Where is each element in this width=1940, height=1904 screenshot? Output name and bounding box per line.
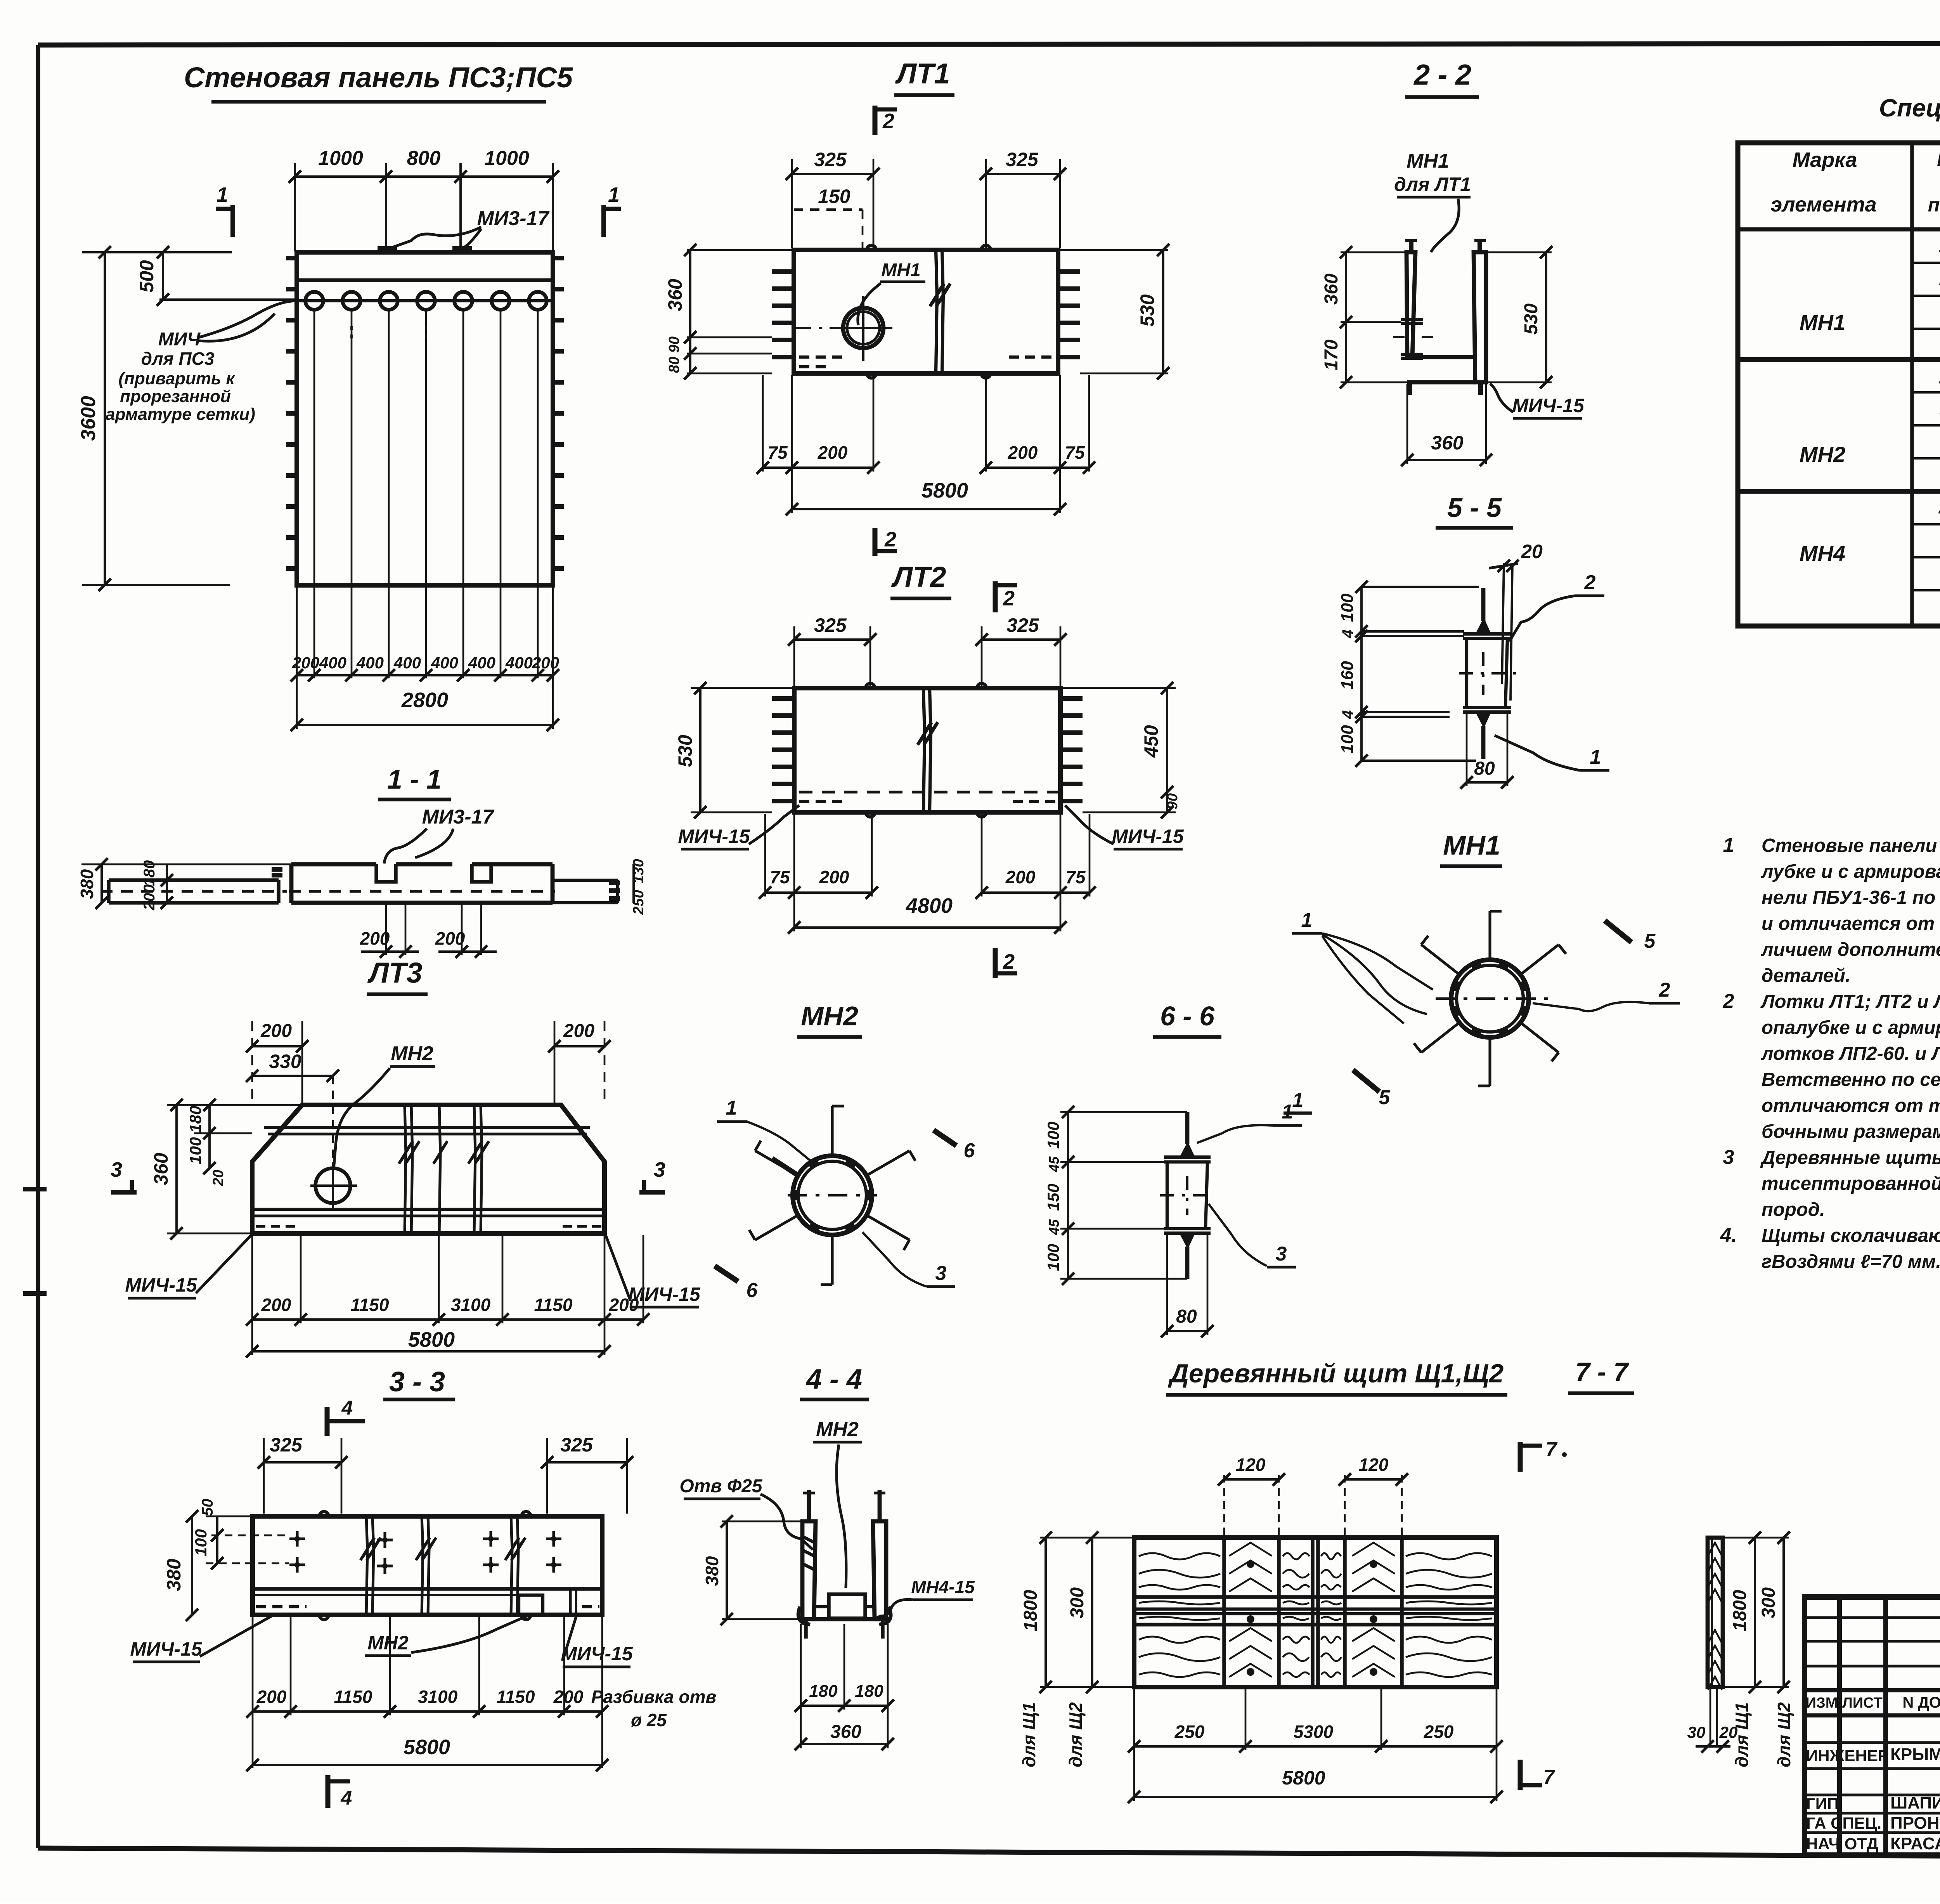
svg-text:45: 45 xyxy=(1046,1156,1062,1172)
svg-text:100: 100 xyxy=(1338,593,1357,622)
svg-text:6 - 6: 6 - 6 xyxy=(1160,1001,1215,1031)
svg-text:45: 45 xyxy=(1046,1219,1062,1235)
svg-text:20: 20 xyxy=(1521,541,1543,562)
svg-text:80: 80 xyxy=(1474,758,1495,779)
svg-text:ЛТ1: ЛТ1 xyxy=(895,57,950,90)
svg-text:30: 30 xyxy=(1687,1723,1706,1741)
svg-text:деталей.: деталей. xyxy=(1762,965,1851,986)
svg-text:МИ3-17: МИ3-17 xyxy=(422,806,495,828)
svg-text:1150: 1150 xyxy=(334,1687,372,1707)
svg-text:200: 200 xyxy=(261,1295,291,1315)
svg-text:100: 100 xyxy=(1338,725,1357,754)
svg-text:180: 180 xyxy=(855,1682,883,1701)
svg-text:5800: 5800 xyxy=(404,1736,450,1759)
svg-text:1000: 1000 xyxy=(318,147,363,170)
svg-text:МН1: МН1 xyxy=(1800,310,1845,335)
svg-text:ГИП: ГИП xyxy=(1806,1795,1839,1813)
svg-text:2: 2 xyxy=(1003,587,1015,610)
svg-text:330: 330 xyxy=(269,1051,301,1072)
svg-text:400: 400 xyxy=(468,654,495,672)
svg-text:Лотки ЛТ1; ЛТ2 и ЛТ3 изготовля: Лотки ЛТ1; ЛТ2 и ЛТ3 изготовляются В xyxy=(1760,991,1940,1012)
svg-text:4: 4 xyxy=(1339,629,1356,638)
svg-text:2 - 2: 2 - 2 xyxy=(1413,59,1471,91)
svg-text:500: 500 xyxy=(136,260,158,293)
svg-text:200: 200 xyxy=(532,654,559,672)
svg-text:МИЧ-15: МИЧ-15 xyxy=(1512,395,1584,416)
svg-text:400: 400 xyxy=(393,654,421,672)
svg-text:180: 180 xyxy=(186,1106,204,1133)
svg-text:1: 1 xyxy=(608,183,620,206)
svg-text:200: 200 xyxy=(292,654,319,672)
svg-text:МН2: МН2 xyxy=(391,1042,433,1065)
svg-text:1: 1 xyxy=(1301,909,1313,931)
svg-text:опалубке и с армированием типо: опалубке и с армированием типовых xyxy=(1762,1017,1940,1038)
svg-text:6: 6 xyxy=(964,1139,975,1162)
svg-text:поз: поз xyxy=(1928,194,1940,216)
svg-text:МН1: МН1 xyxy=(1406,150,1449,172)
svg-text:90: 90 xyxy=(666,336,682,353)
svg-text:ПРОНИН: ПРОНИН xyxy=(1890,1814,1940,1833)
svg-text:ЛТ3: ЛТ3 xyxy=(367,957,422,989)
svg-text:530: 530 xyxy=(1521,303,1542,335)
svg-text:3600: 3600 xyxy=(77,396,100,441)
svg-text:3: 3 xyxy=(654,1158,665,1181)
svg-text:1000: 1000 xyxy=(484,147,529,170)
svg-text:МН2: МН2 xyxy=(367,1632,409,1654)
svg-text:1: 1 xyxy=(217,183,228,206)
svg-text:200: 200 xyxy=(1008,442,1038,463)
svg-text:90: 90 xyxy=(1164,793,1181,810)
svg-text:лубке и с армированием стеново: лубке и с армированием стеновой па- xyxy=(1761,861,1940,882)
svg-text:5300: 5300 xyxy=(1294,1722,1334,1742)
svg-text:и отличается от последней толь: и отличается от последней только на- xyxy=(1762,913,1940,934)
svg-text:200: 200 xyxy=(260,1021,292,1041)
svg-text:ЛТ2: ЛТ2 xyxy=(891,561,946,593)
svg-text:400: 400 xyxy=(505,654,533,672)
svg-text:Деревянный щит Щ1,Щ2: Деревянный щит Щ1,Щ2 xyxy=(1168,1359,1504,1388)
svg-text:прорезанной: прорезанной xyxy=(120,387,231,406)
svg-text:250: 250 xyxy=(1424,1722,1454,1742)
svg-text:МН2: МН2 xyxy=(816,1418,859,1441)
svg-text:150: 150 xyxy=(1044,1184,1062,1211)
svg-text:Отв Ф25: Отв Ф25 xyxy=(679,1476,763,1496)
svg-text:ЛИСТ: ЛИСТ xyxy=(1842,1695,1883,1711)
svg-text:для ПС3: для ПС3 xyxy=(141,349,215,369)
svg-text:200: 200 xyxy=(609,1295,639,1315)
svg-text:для Щ1: для Щ1 xyxy=(1019,1702,1039,1767)
svg-text:325: 325 xyxy=(560,1434,593,1456)
svg-text:МИ3-17: МИ3-17 xyxy=(477,207,550,230)
svg-text:Ветственно по серии 3.900-2 Вы: Ветственно по серии 3.900-2 Вып.6 и xyxy=(1762,1069,1940,1090)
svg-text:4 - 4: 4 - 4 xyxy=(805,1364,862,1395)
svg-text:ГА СПЕЦ.: ГА СПЕЦ. xyxy=(1806,1814,1881,1832)
svg-text:3: 3 xyxy=(111,1158,122,1181)
svg-text:20: 20 xyxy=(210,1170,227,1186)
svg-text:МН2: МН2 xyxy=(1800,442,1845,466)
svg-text:НАЧ ОТД: НАЧ ОТД xyxy=(1806,1835,1878,1853)
svg-text:200: 200 xyxy=(818,442,848,463)
svg-text:для ЛТ1: для ЛТ1 xyxy=(1394,173,1471,195)
svg-text:для Щ2: для Щ2 xyxy=(1774,1702,1794,1767)
svg-text:Спецификация металла на одн: Спецификация металла на одну марку xyxy=(1879,94,1940,122)
svg-text:ИНЖЕНЕР: ИНЖЕНЕР xyxy=(1806,1746,1889,1765)
svg-text:50: 50 xyxy=(199,1499,216,1516)
svg-text:100: 100 xyxy=(192,1529,210,1556)
svg-text:300: 300 xyxy=(1758,1587,1779,1618)
svg-text:1150: 1150 xyxy=(351,1295,389,1315)
svg-text:200: 200 xyxy=(553,1687,584,1707)
svg-text:5: 5 xyxy=(1379,1086,1391,1109)
svg-text:250: 250 xyxy=(1174,1722,1205,1742)
svg-text:4: 4 xyxy=(341,1397,353,1419)
svg-text:2: 2 xyxy=(1659,979,1670,1001)
svg-text:450: 450 xyxy=(1140,725,1162,758)
svg-text:250: 250 xyxy=(630,890,647,915)
svg-text:Стеновая панель ПС3;ПС5: Стеновая панель ПС3;ПС5 xyxy=(184,61,573,94)
svg-text:отличаются от типовых только о: отличаются от типовых только опалу- xyxy=(1762,1095,1940,1116)
svg-text:5800: 5800 xyxy=(408,1328,455,1351)
svg-text:360: 360 xyxy=(830,1722,861,1742)
svg-text:МИЧ-15: МИЧ-15 xyxy=(561,1643,633,1665)
svg-text:5 - 5: 5 - 5 xyxy=(1447,492,1502,523)
svg-text:бочными размерами.: бочными размерами. xyxy=(1762,1121,1940,1142)
svg-text:200: 200 xyxy=(1005,867,1036,887)
svg-text:1: 1 xyxy=(1723,834,1734,857)
svg-text:300: 300 xyxy=(1067,1587,1088,1618)
svg-text:4: 4 xyxy=(341,1787,352,1809)
svg-text:Марка: Марка xyxy=(1793,148,1857,172)
svg-text:530: 530 xyxy=(674,735,696,767)
svg-text:2: 2 xyxy=(1723,990,1734,1013)
svg-text:6: 6 xyxy=(747,1279,758,1302)
svg-text:800: 800 xyxy=(407,147,441,170)
svg-text:325: 325 xyxy=(814,149,847,170)
svg-text:75: 75 xyxy=(767,442,788,463)
svg-text:325: 325 xyxy=(1006,149,1039,170)
svg-text:325: 325 xyxy=(814,614,847,636)
svg-text:200: 200 xyxy=(141,884,158,911)
svg-text:120: 120 xyxy=(1359,1455,1389,1475)
svg-text:для Щ1: для Щ1 xyxy=(1732,1702,1752,1767)
svg-text:100: 100 xyxy=(186,1137,204,1164)
svg-text:для Щ2: для Щ2 xyxy=(1065,1702,1086,1767)
svg-text:100: 100 xyxy=(1044,1244,1062,1271)
svg-text:личием дополнительных закладны: личием дополнительных закладных xyxy=(1761,939,1940,960)
svg-text:400: 400 xyxy=(356,654,384,672)
svg-text:160: 160 xyxy=(1338,661,1357,690)
svg-text:530: 530 xyxy=(1136,294,1158,327)
svg-text:Разбивка отв: Разбивка отв xyxy=(591,1687,717,1707)
svg-text:400: 400 xyxy=(431,654,458,672)
svg-text:325: 325 xyxy=(270,1434,303,1456)
svg-text:5800: 5800 xyxy=(921,479,968,502)
svg-text:МИЧ-15: МИЧ-15 xyxy=(1112,825,1184,847)
svg-text:170: 170 xyxy=(1321,340,1342,371)
svg-text:2800: 2800 xyxy=(401,688,448,712)
svg-text:400: 400 xyxy=(319,654,346,672)
svg-text:1: 1 xyxy=(1590,746,1601,768)
svg-text:3100: 3100 xyxy=(418,1687,458,1707)
svg-text:380: 380 xyxy=(163,1559,185,1591)
svg-text:130: 130 xyxy=(630,859,647,883)
svg-text:3: 3 xyxy=(935,1262,947,1285)
svg-text:МН1: МН1 xyxy=(1443,830,1500,860)
svg-text:МН4: МН4 xyxy=(1800,541,1845,565)
svg-text:1 - 1: 1 - 1 xyxy=(387,764,442,794)
svg-text:200: 200 xyxy=(256,1687,287,1707)
svg-text:(приварить к: (приварить к xyxy=(118,369,236,388)
svg-text:7: 7 xyxy=(1543,1766,1555,1788)
svg-text:2: 2 xyxy=(882,109,894,133)
svg-text:МН2: МН2 xyxy=(801,1001,858,1031)
svg-text:МИЧ-15: МИЧ-15 xyxy=(628,1283,700,1305)
svg-text:ИЗМ: ИЗМ xyxy=(1806,1695,1838,1711)
svg-text:ø 25: ø 25 xyxy=(631,1710,667,1730)
svg-text:4.: 4. xyxy=(1720,1224,1737,1247)
svg-text:75: 75 xyxy=(770,867,790,887)
svg-text:Стеновые панели ПС3,ПС5 Выполн: Стеновые панели ПС3,ПС5 Выполняется В оп… xyxy=(1762,835,1940,856)
svg-text:360: 360 xyxy=(1431,432,1464,454)
svg-text:тисептированной древесины хВой: тисептированной древесины хВойных xyxy=(1762,1173,1940,1194)
svg-text:МИЧ-15: МИЧ-15 xyxy=(130,1638,202,1660)
svg-text:3: 3 xyxy=(1276,1243,1287,1265)
svg-text:3: 3 xyxy=(1723,1146,1734,1169)
svg-text:4800: 4800 xyxy=(906,894,953,917)
svg-text:МИЧ: МИЧ xyxy=(158,329,201,350)
svg-text:Деревянные щиты Выполнять из а: Деревянные щиты Выполнять из ан- xyxy=(1760,1147,1940,1168)
svg-text:360: 360 xyxy=(1321,274,1342,305)
svg-text:1: 1 xyxy=(726,1097,737,1119)
svg-text:пород.: пород. xyxy=(1762,1199,1825,1220)
svg-text:325: 325 xyxy=(1006,614,1039,636)
svg-text:МИЧ-15: МИЧ-15 xyxy=(125,1274,197,1296)
svg-text:1150: 1150 xyxy=(497,1687,535,1707)
svg-text:360: 360 xyxy=(664,279,686,311)
svg-text:КРАСАВИН: КРАСАВИН xyxy=(1890,1834,1940,1853)
svg-text:200: 200 xyxy=(360,928,390,949)
svg-text:4: 4 xyxy=(1339,710,1356,719)
svg-text:150: 150 xyxy=(818,186,850,207)
svg-text:380: 380 xyxy=(77,869,97,899)
svg-text:2: 2 xyxy=(1003,950,1015,973)
svg-text:4: 4 xyxy=(1938,500,1940,520)
svg-text:200: 200 xyxy=(563,1021,594,1041)
svg-text:лотков ЛП2-60. и ЛП1-: лотков ЛП2-60. и ЛП1-60 соот- xyxy=(1761,1043,1940,1064)
svg-text:1: 1 xyxy=(1292,1089,1304,1112)
svg-text:3100: 3100 xyxy=(451,1295,491,1315)
svg-text:элемента: элемента xyxy=(1770,193,1876,216)
svg-text:5: 5 xyxy=(1644,930,1656,952)
svg-text:380: 380 xyxy=(702,1556,722,1586)
svg-text:КРЫМСКИЙ: КРЫМСКИЙ xyxy=(1890,1744,1940,1764)
svg-text:200: 200 xyxy=(435,928,465,949)
svg-text:МИЧ-15: МИЧ-15 xyxy=(678,825,750,847)
svg-text:МН1: МН1 xyxy=(881,260,920,281)
svg-text:1150: 1150 xyxy=(534,1295,573,1315)
svg-text:200: 200 xyxy=(819,867,849,887)
svg-text:1800: 1800 xyxy=(1020,1590,1041,1631)
svg-text:1: 1 xyxy=(1939,367,1940,388)
svg-text:ШАПИРО: ШАПИРО xyxy=(1890,1793,1940,1812)
svg-text:80: 80 xyxy=(1176,1306,1197,1327)
svg-text:360: 360 xyxy=(150,1153,172,1185)
svg-text:120: 120 xyxy=(1236,1455,1266,1475)
svg-text:1: 1 xyxy=(1282,1101,1293,1123)
svg-text:2: 2 xyxy=(884,528,896,551)
svg-text:1800: 1800 xyxy=(1730,1590,1750,1631)
svg-text:80: 80 xyxy=(666,357,682,373)
svg-text:1: 1 xyxy=(1939,236,1940,257)
svg-text:N ДОКУМ: N ДОКУМ xyxy=(1902,1694,1940,1711)
svg-text:75: 75 xyxy=(1065,442,1085,463)
svg-text:75: 75 xyxy=(1065,867,1086,887)
svg-text:гВоздями ℓ=70 мм.: гВоздями ℓ=70 мм. xyxy=(1762,1251,1940,1272)
svg-text:100: 100 xyxy=(1044,1122,1062,1149)
svg-text:7 - 7: 7 - 7 xyxy=(1575,1357,1629,1387)
svg-text:3 - 3: 3 - 3 xyxy=(389,1366,445,1398)
svg-text:2: 2 xyxy=(1584,571,1596,594)
svg-text:арматуре сетки): арматуре сетки) xyxy=(106,405,255,424)
svg-text:5800: 5800 xyxy=(1282,1767,1325,1789)
svg-text:МН4-15: МН4-15 xyxy=(911,1577,975,1597)
svg-text:7: 7 xyxy=(1546,1438,1558,1461)
svg-text:180: 180 xyxy=(809,1682,838,1701)
svg-text:нели ПБУ1-36-1 по серии 3.900-: нели ПБУ1-36-1 по серии 3.900-2 Вып7 xyxy=(1762,887,1940,908)
svg-text:N: N xyxy=(1937,149,1940,170)
svg-text:Щиты сколачиваются по месту: Щиты сколачиваются по месту xyxy=(1762,1225,1940,1246)
